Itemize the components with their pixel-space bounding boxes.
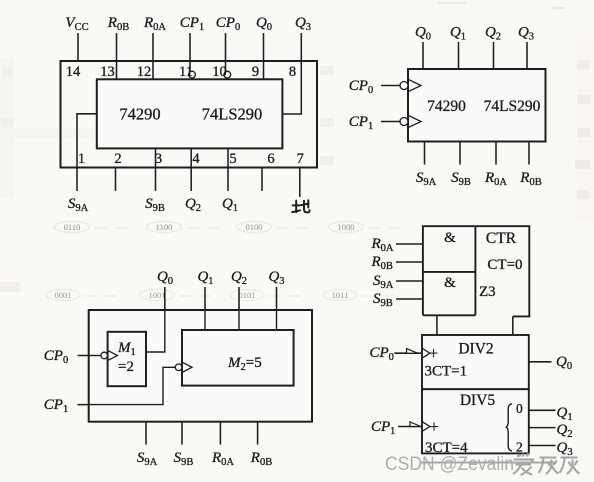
svg-text:CT=0: CT=0: [487, 257, 522, 273]
DIV2 block box: [422, 335, 529, 389]
CP0 dynamic triangle: [108, 351, 117, 360]
svg-text:DIV5: DIV5: [460, 392, 496, 409]
block M1 box: [108, 332, 146, 386]
block M2 box: [182, 330, 294, 386]
right leg wire CTR to DIV2: [512, 316, 514, 335]
CP1 input wire: [381, 121, 400, 123]
svg-text:3: 3: [155, 151, 162, 167]
svg-text:74290: 74290: [427, 98, 466, 115]
R0B input wire: [396, 261, 423, 263]
Q0 output wire: [529, 361, 552, 363]
package outline box: [61, 61, 318, 168]
svg-text:&: &: [444, 275, 456, 291]
pin 13 lead wire: [116, 33, 118, 79]
R0B lead wire: [528, 142, 530, 165]
pin 7 lead wire: [299, 168, 301, 198]
svg-text:14: 14: [66, 64, 81, 80]
CP1 dynamic triangle: [183, 363, 192, 372]
pin 1 wire: [77, 114, 97, 191]
Q2 lead wire: [238, 287, 240, 330]
S9A lead wire: [424, 142, 426, 165]
CP1 wire inside box: [89, 367, 175, 404]
CP1 dynamic triangle: [423, 422, 430, 431]
R0A lead wire: [219, 422, 221, 445]
S9B lead wire: [181, 422, 183, 445]
S9B input wire: [396, 298, 423, 300]
svg-text:1000: 1000: [338, 222, 355, 232]
svg-text:12: 12: [137, 64, 152, 80]
CP1 polarity bubble: [400, 118, 408, 126]
svg-text:&: &: [444, 230, 456, 246]
svg-text:1100: 1100: [156, 222, 173, 232]
svg-text:74290: 74290: [119, 105, 160, 124]
IC body inner box: [97, 79, 283, 148]
R0B lead wire: [257, 422, 259, 445]
CTR common control block outline: [423, 226, 529, 316]
svg-text:+: +: [429, 417, 438, 436]
pin 11 lead wire: [189, 33, 191, 71]
S9A lead wire: [145, 422, 147, 445]
bleed-through ellipse row B: [46, 290, 394, 301]
svg-text:13: 13: [100, 64, 115, 80]
top pin labels: [65, 15, 311, 33]
Q3 wire inside box: [276, 310, 278, 330]
svg-text:74LS290: 74LS290: [484, 98, 541, 115]
Q0 wire: [146, 287, 165, 352]
svg-text:0100: 0100: [246, 222, 263, 232]
pin 10 lead wire: [225, 33, 227, 71]
svg-text:1: 1: [78, 151, 85, 167]
svg-text:Z3: Z3: [479, 284, 496, 300]
faint marginal bleed marks: [0, 60, 591, 292]
svg-text:10: 10: [212, 64, 227, 80]
R0A input wire: [396, 243, 423, 245]
CP0 input wire: [394, 352, 421, 354]
CP0 wire inside box: [89, 355, 101, 357]
Q1 output wire: [529, 409, 556, 411]
CP0 polarity bubble: [400, 82, 408, 90]
svg-text:1011: 1011: [332, 290, 349, 300]
S9B lead wire: [459, 142, 461, 165]
svg-text:0110: 0110: [64, 222, 81, 232]
Q1 wire inside box: [204, 310, 206, 330]
svg-text:8: 8: [289, 64, 296, 80]
bottom labels: [68, 196, 238, 214]
Q2 output wire: [529, 427, 556, 429]
pin 5 lead wire: [227, 148, 229, 191]
svg-text:5: 5: [229, 151, 236, 167]
svg-text:0001: 0001: [55, 290, 72, 300]
Q3 lead wire: [276, 287, 278, 330]
pin 3 lead wire: [155, 148, 157, 191]
Q3 output wire: [529, 445, 556, 447]
left leg wire Z3 to DIV2: [436, 315, 438, 335]
watermark CJK 爱灰灰 drawn as strokes: [513, 453, 580, 475]
CP1 input wire: [398, 426, 421, 428]
svg-text:0: 0: [516, 401, 523, 416]
pin 12 lead wire: [152, 33, 154, 79]
svg-text:2: 2: [516, 439, 523, 454]
svg-text:0101: 0101: [239, 290, 256, 300]
CP0 input wire: [78, 355, 102, 357]
Q2 lead wire: [493, 42, 495, 69]
svg-text:2: 2: [114, 151, 121, 167]
svg-text:=2: =2: [118, 359, 134, 375]
svg-text:CTR: CTR: [486, 230, 517, 247]
faint top edge marks: [437, 3, 565, 8]
svg-text:11: 11: [179, 64, 193, 80]
pin 14 lead wire: [77, 33, 79, 61]
output group brace: [506, 404, 512, 451]
Q1 lead wire: [204, 287, 206, 330]
CP0 polarity bubble: [101, 352, 108, 359]
top pin numbers: [66, 64, 296, 80]
svg-text:7: 7: [297, 151, 304, 167]
Q3 lead wire: [526, 42, 528, 69]
bottom pin numbers: [78, 151, 304, 167]
Q1 lead wire: [458, 42, 460, 69]
svg-text:CSDN @Zevalin: CSDN @Zevalin: [385, 454, 514, 475]
pin 4 lead wire: [190, 148, 192, 191]
pin 2 lead wire: [115, 168, 117, 192]
svg-text:6: 6: [267, 151, 274, 167]
label ground (Chinese char 地) drawn as path: [292, 200, 309, 212]
svg-text:9: 9: [252, 64, 259, 80]
R0A lead wire: [495, 142, 497, 165]
svg-text:+: +: [429, 344, 438, 363]
Q0 wire inside box: [146, 310, 165, 352]
CP0 dynamic triangle: [423, 349, 430, 358]
watermark CSDN @Zevalin: [385, 454, 514, 475]
Q2 wire inside box: [238, 310, 240, 330]
Q0 lead wire: [422, 42, 424, 69]
logic symbol box: [408, 69, 546, 142]
CP1 input wire: [78, 367, 176, 404]
CP0 input wire: [381, 85, 400, 87]
pin 9 lead wire: [263, 33, 265, 79]
CP0 open arrowhead: [407, 349, 418, 354]
pin 8 lead wire: [282, 33, 301, 114]
svg-text:DIV2: DIV2: [458, 341, 493, 358]
CP1 dynamic input triangle: [409, 116, 421, 128]
DIV5 block box: [422, 389, 529, 453]
CP1 open arrowhead: [410, 422, 421, 427]
bleed-through ellipse row A: [55, 222, 402, 233]
S9A input wire: [396, 280, 423, 282]
pin 6 lead wire: [261, 168, 263, 192]
svg-text:4: 4: [192, 151, 200, 167]
svg-text:74LS290: 74LS290: [202, 105, 263, 124]
svg-text:1001: 1001: [149, 290, 166, 300]
CP0 dynamic input triangle: [409, 80, 421, 92]
watermark strikethrough line: [420, 462, 557, 464]
pin 10 inversion bubble: [224, 71, 231, 78]
svg-text:3CT=1: 3CT=1: [425, 364, 468, 380]
pin 11 inversion bubble: [189, 71, 196, 78]
outer enclosure box: [89, 310, 312, 422]
CP1 polarity bubble: [175, 364, 182, 371]
